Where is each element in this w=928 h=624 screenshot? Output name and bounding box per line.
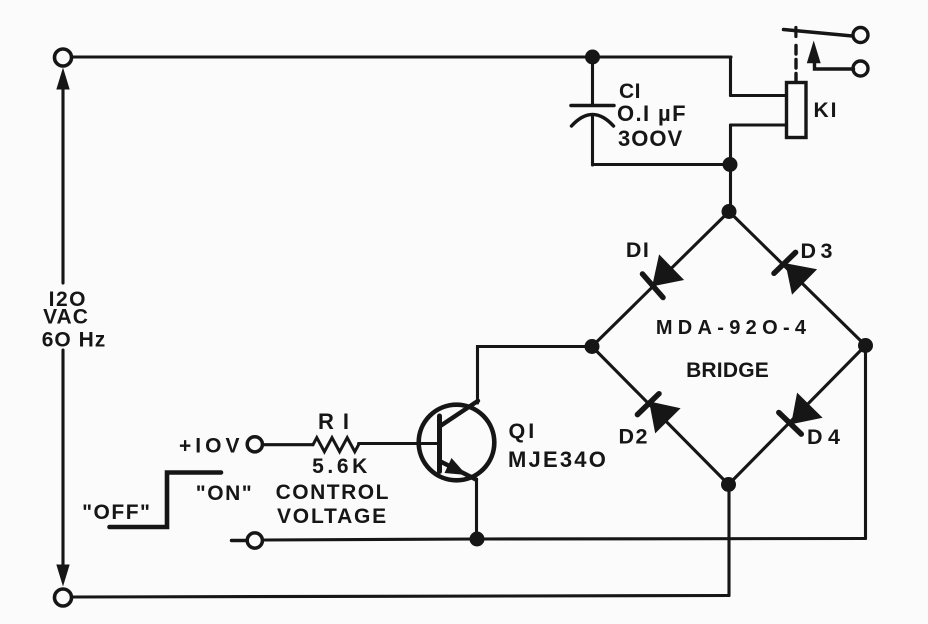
- wire left rail lower: [61, 350, 64, 565]
- svg-text:+IOV: +IOV: [179, 435, 243, 458]
- relay actuation dashed link: [794, 41, 797, 82]
- label C1 value: [617, 80, 687, 151]
- wire relay coil stub lower: [731, 123, 787, 126]
- node junction dot emitter/common: [470, 532, 485, 547]
- label 120 VAC 60 Hz: [42, 288, 107, 352]
- step waveform off-on: [110, 473, 222, 528]
- node bridge top vertex: [722, 204, 737, 219]
- wire bottom horizontal: [72, 596, 730, 598]
- svg-text:VAC: VAC: [43, 306, 89, 329]
- svg-text:O.I µF: O.I µF: [617, 101, 687, 126]
- terminal switch lower contact: [853, 61, 868, 76]
- svg-text:CI: CI: [619, 80, 641, 103]
- svg-text:D2: D2: [619, 425, 649, 449]
- svg-text:D4: D4: [807, 425, 845, 449]
- terminal control - input: [247, 533, 262, 548]
- wire relay branch vertical upper: [729, 57, 732, 96]
- svg-text:CONTROL: CONTROL: [276, 481, 390, 504]
- wire top horizontal from AC hot terminal to relay branch: [72, 55, 732, 58]
- bridge edge bottom-right (D4 branch): [729, 346, 866, 485]
- arrow up (switch actuation): [807, 41, 821, 64]
- relay coil K1: [787, 83, 807, 138]
- wire common rail to right rail: [263, 539, 866, 541]
- minus sign control input: [232, 539, 246, 542]
- svg-text:6O Hz: 6O Hz: [42, 329, 107, 352]
- wire switch lower contact lead: [815, 62, 854, 69]
- svg-text:MJE34O: MJE34O: [508, 447, 608, 472]
- svg-text:BRIDGE: BRIDGE: [686, 359, 769, 382]
- svg-text:KI: KI: [814, 99, 839, 122]
- resistor R1: [313, 438, 359, 452]
- diode D3: [774, 252, 817, 294]
- terminal AC bottom-left: [55, 589, 72, 606]
- svg-text:"OFF": "OFF": [82, 501, 151, 524]
- svg-text:"ON": "ON": [196, 482, 253, 505]
- wire bridge bottom stem: [727, 485, 730, 596]
- wire relay coil stub upper: [731, 94, 787, 97]
- svg-text:RI: RI: [318, 409, 358, 434]
- transistor Q1: [419, 401, 495, 481]
- bridge edge top-left (D1 branch): [592, 212, 729, 347]
- svg-text:DI: DI: [626, 238, 651, 262]
- node bridge bottom vertex: [721, 477, 736, 492]
- wire dash tick at arm: [794, 28, 797, 37]
- wire C1 top lead: [591, 57, 594, 104]
- svg-text:QI: QI: [509, 419, 538, 443]
- arrow up (AC source top): [56, 68, 69, 90]
- svg-text:VOLTAGE: VOLTAGE: [277, 505, 388, 528]
- diode D4: [779, 393, 823, 435]
- terminal AC top-left: [55, 49, 72, 66]
- diode D2: [637, 394, 680, 434]
- node junction dot relay/C1/bridge: [723, 157, 738, 172]
- wire C1 bottom horizontal to relay node: [593, 163, 731, 166]
- wire C1 bottom lead: [591, 117, 594, 165]
- node bridge right vertex: [858, 338, 873, 353]
- wire relay branch vertical lower to bridge top: [729, 125, 732, 212]
- svg-text:5.6K: 5.6K: [312, 455, 371, 478]
- wire resistor to base: [359, 442, 440, 445]
- switch arm K1 contact: [784, 30, 853, 37]
- node bridge left vertex: [585, 339, 600, 354]
- bridge edge top-right (D3 branch): [729, 212, 866, 346]
- node junction dot at C1 top: [585, 50, 600, 65]
- wire bridge left vertex to collector: [478, 347, 593, 404]
- terminal switch upper contact: [853, 28, 868, 43]
- wire emitter to common rail: [475, 479, 478, 539]
- wire terminal to resistor: [263, 443, 313, 446]
- label Q1: [508, 419, 608, 472]
- svg-text:D3: D3: [801, 239, 837, 263]
- bridge edge bottom-left (D2 branch): [592, 347, 729, 485]
- terminal control + input: [247, 437, 262, 452]
- capacitor C1: [571, 106, 614, 127]
- diode D1: [643, 254, 685, 297]
- arrow down (AC source bottom): [56, 565, 69, 587]
- svg-text:MDA-92O-4: MDA-92O-4: [656, 317, 812, 339]
- wire left rail upper: [61, 86, 64, 283]
- wire right rail from bridge right vertex down: [864, 346, 867, 539]
- svg-text:3OOV: 3OOV: [618, 126, 683, 151]
